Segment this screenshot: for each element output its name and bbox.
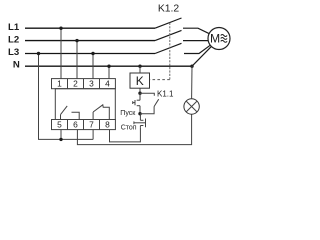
- svg-text:5: 5: [57, 120, 62, 130]
- svg-text:L2: L2: [8, 34, 19, 45]
- junction dot N/lamp: [190, 65, 193, 68]
- wire terminal 5 lead: [60, 130, 62, 140]
- junction dot L1/T1: [59, 27, 62, 30]
- pushbutton Стоп (NC): [139, 114, 141, 121]
- node L3 line: [25, 53, 155, 55]
- node L1 line: [25, 27, 155, 29]
- wire L3 to motor: [184, 45, 210, 53]
- svg-text:7: 7: [89, 120, 94, 130]
- wire terminal 7 lead: [92, 130, 94, 140]
- label motor tildes 3~: [221, 35, 227, 43]
- svg-text:K1.2: K1.2: [158, 4, 180, 15]
- pushbutton Пуск (NO): [139, 93, 141, 100]
- node L2 line: [25, 40, 155, 42]
- wire N to lamp: [191, 66, 193, 99]
- svg-text:M: M: [210, 32, 220, 46]
- svg-text:L3: L3: [8, 47, 19, 58]
- junction dot N/T4: [107, 65, 110, 68]
- svg-text:Стоп: Стоп: [121, 124, 137, 131]
- junction node A: [138, 92, 141, 95]
- wire L2 to terminal 2: [76, 41, 78, 79]
- wire L2 to motor: [183, 40, 208, 42]
- wire N to K coil: [139, 66, 141, 73]
- wire L1 to terminal 1: [60, 28, 62, 78]
- contactor contact K1.2 blade L2: [155, 30, 182, 40]
- svg-text:Пуск: Пуск: [120, 110, 136, 117]
- svg-text:L1: L1: [8, 22, 20, 33]
- wire L1 to motor: [183, 28, 209, 34]
- junction dot L3/T3: [91, 52, 94, 55]
- wire N to terminal 4: [108, 66, 110, 78]
- junction node B: [138, 112, 141, 115]
- svg-text:K1.1: K1.1: [157, 89, 174, 98]
- junction dot L2/T2: [75, 39, 78, 42]
- svg-text:4: 4: [105, 79, 110, 89]
- svg-text:1: 1: [57, 79, 62, 89]
- relay terminal row top: [52, 79, 116, 89]
- lamp signal: [184, 99, 199, 114]
- wire L3 to terminal 3: [92, 54, 94, 79]
- motor M circle: [208, 28, 230, 50]
- K1.2 mechanical linkage dashed: [169, 23, 171, 80]
- relay contact 7-8: [92, 112, 94, 120]
- relay box body: [55, 89, 115, 120]
- wire L3 left riser down: [39, 54, 94, 140]
- wire K coil to node A: [139, 88, 141, 93]
- svg-text:8: 8: [105, 120, 110, 130]
- wire N to motor: [192, 46, 211, 66]
- relay terminal row bottom: [52, 120, 116, 130]
- svg-text:2: 2: [73, 79, 78, 89]
- wire terminal 6 to lamp bottom: [77, 114, 191, 144]
- svg-text:K: K: [136, 74, 144, 88]
- junction dot L3 left riser: [37, 52, 40, 55]
- junction dot bottom T5: [59, 138, 62, 141]
- svg-text:6: 6: [73, 120, 78, 130]
- contactor contact K1.2 blade L1: [155, 18, 182, 28]
- wire terminal 8 to Stop bottom: [110, 127, 141, 142]
- auxiliary contact K1.1 branch: [140, 93, 154, 96]
- relay contact 5-6: [60, 115, 62, 120]
- contactor coil K box: [130, 73, 150, 88]
- contactor contact K1.2 blade L3: [155, 43, 182, 53]
- node N line: [25, 65, 192, 67]
- junction dot N/K-coil: [138, 65, 141, 68]
- svg-text:N: N: [13, 60, 20, 71]
- svg-text:3: 3: [89, 79, 94, 89]
